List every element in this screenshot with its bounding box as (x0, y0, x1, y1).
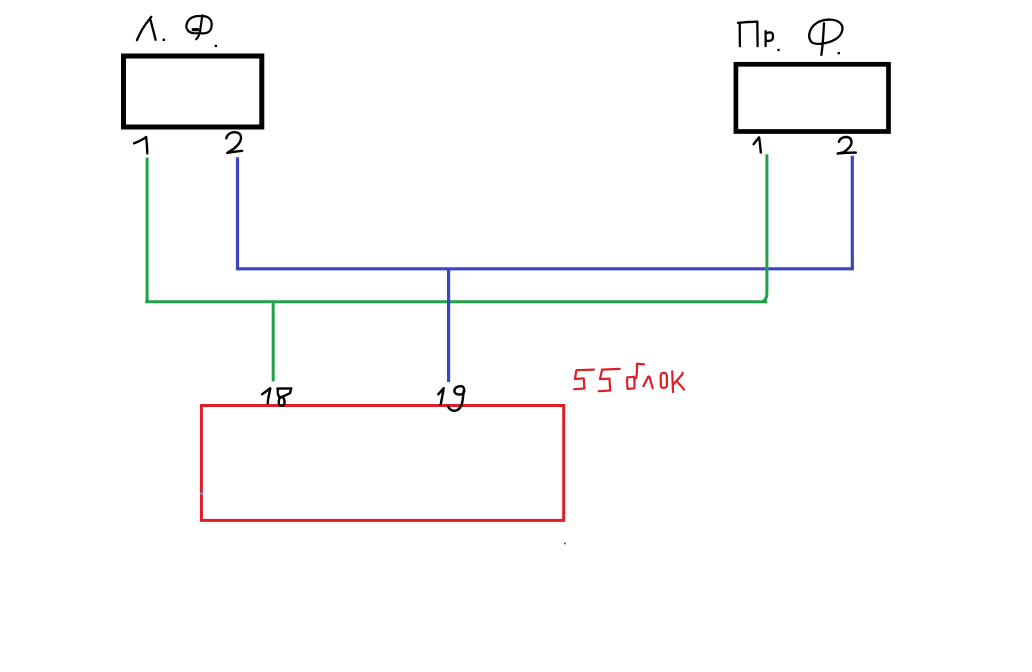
pin label 1 (left lamp) (134, 137, 147, 154)
pin label 2 (left lamp) (226, 132, 242, 153)
pin label 18 (block) (262, 388, 291, 406)
pin label 2 (right lamp) (838, 137, 856, 154)
wire: green from left lamp pin 1 (146, 158, 149, 302)
label Ф. (right box) (809, 20, 842, 55)
block 55 (red box) (201, 406, 563, 521)
label 55блок (red, near block) (574, 364, 684, 392)
label Пр. (right box) (738, 22, 780, 51)
pin label 19 (block) (438, 386, 464, 411)
label Ф. (left box) (186, 15, 217, 47)
wire: blue net (pin2 left lamp, pin2 right lamp) (238, 156, 853, 269)
stray blue dot on block left edge (200, 492, 202, 494)
wire: blue branch down to block pin 19 (447, 270, 450, 382)
label Л. (left box) (137, 17, 165, 41)
left headlamp box Л.Ф. (124, 56, 262, 127)
wire: green horizontal bus (pin1 left lamp to pin1 right lamp and pin 18) (145, 300, 767, 303)
wire: green from right lamp pin 1 (763, 154, 767, 301)
wire: green branch down to block pin 18 (272, 302, 275, 382)
stray dark dot below block (564, 543, 566, 545)
right headlamp box Пр.Ф. (736, 64, 889, 131)
pin label 1 (right lamp) (754, 137, 761, 152)
